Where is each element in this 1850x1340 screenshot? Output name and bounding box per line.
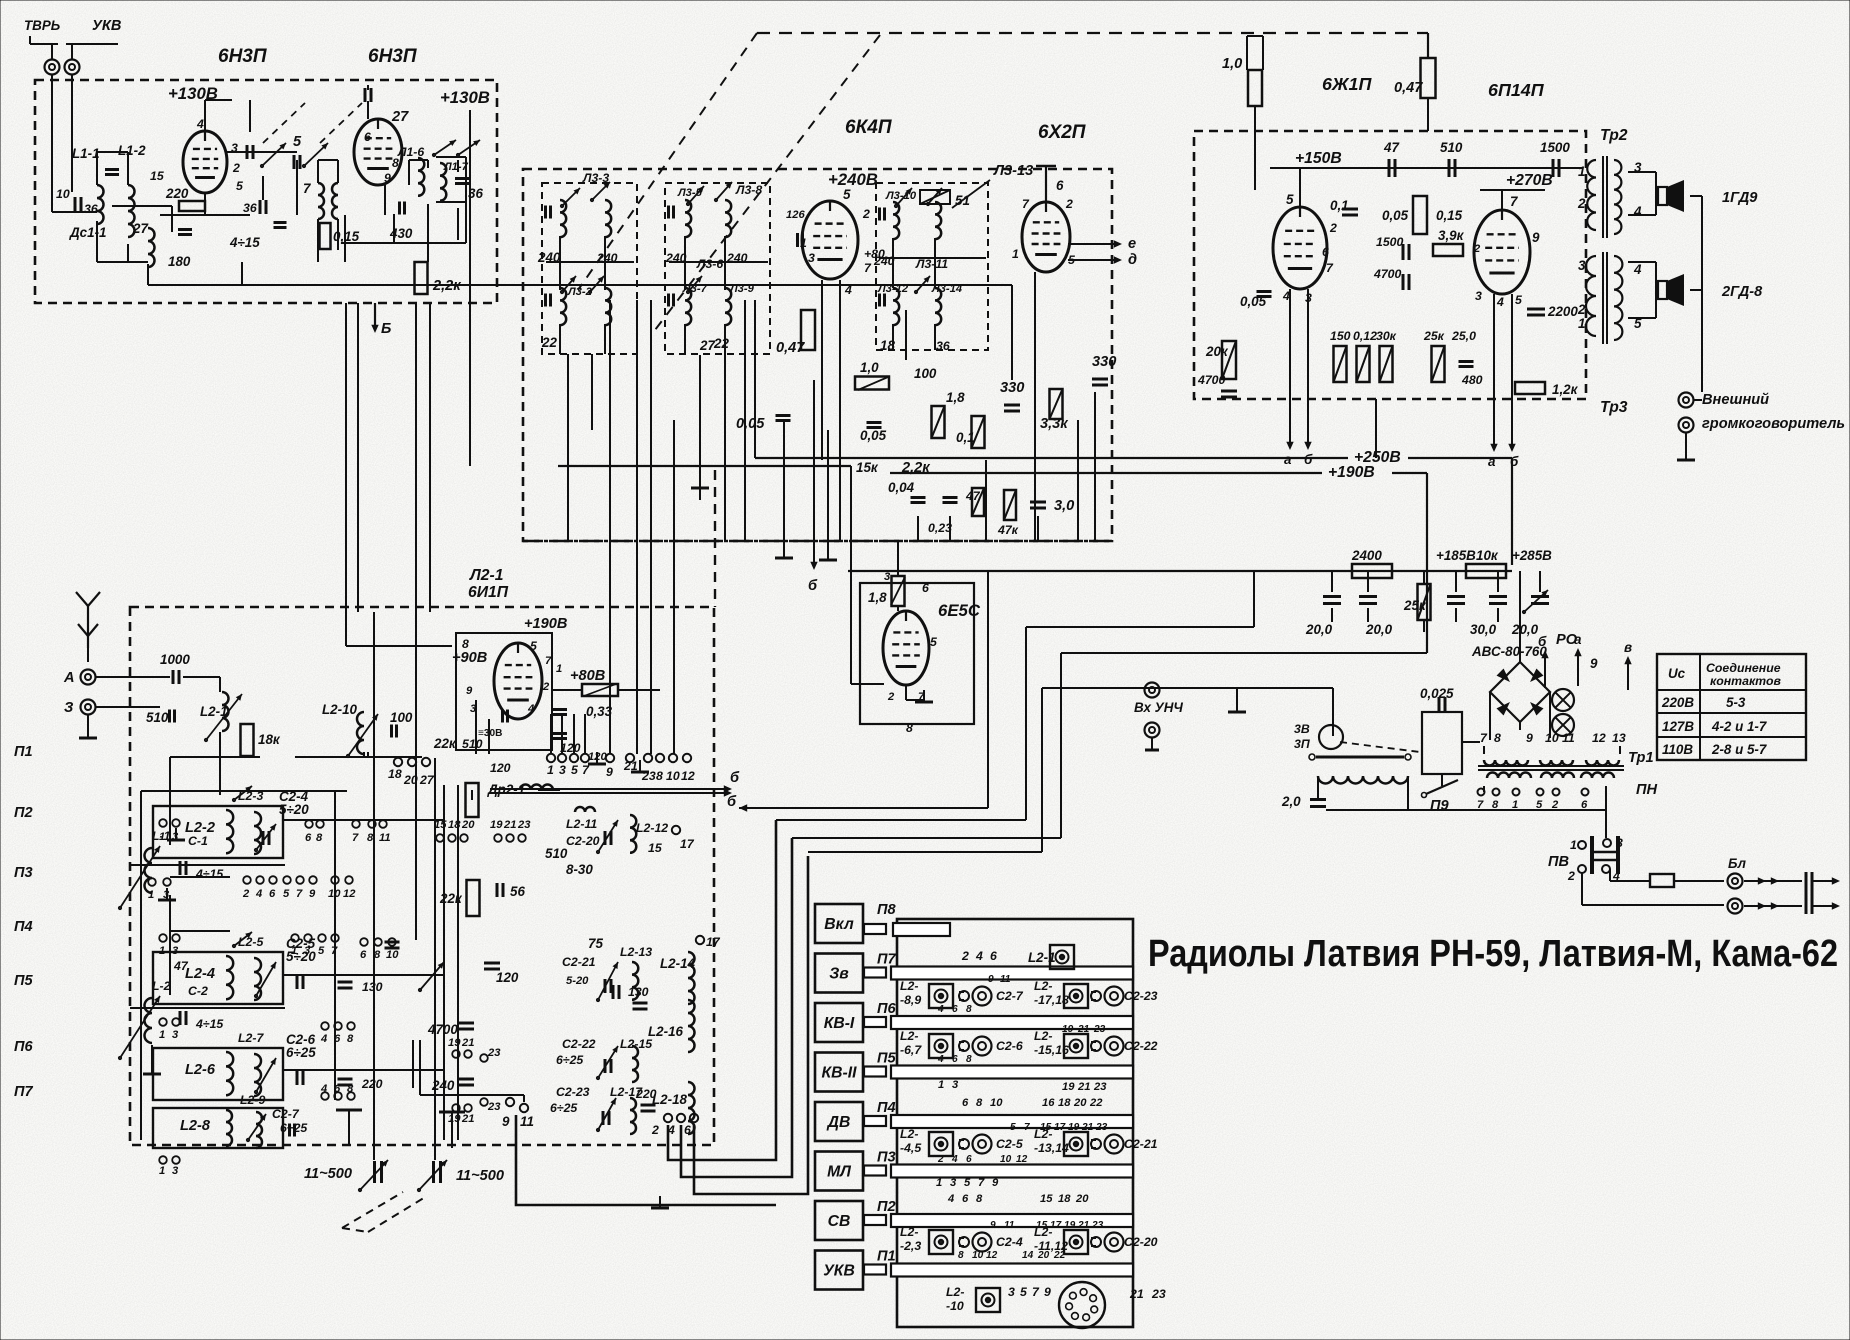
svg-text:21: 21 bbox=[1077, 1081, 1090, 1093]
svg-text:220В: 220В bbox=[1661, 695, 1694, 710]
svg-text:3: 3 bbox=[950, 1177, 957, 1189]
svg-text:8: 8 bbox=[347, 1033, 354, 1045]
svg-text:19: 19 bbox=[1064, 1220, 1076, 1231]
svg-text:П9: П9 bbox=[1430, 798, 1449, 814]
svg-text:8: 8 bbox=[976, 1097, 983, 1109]
svg-text:0,05: 0,05 bbox=[736, 416, 765, 432]
svg-text:L2-5: L2-5 bbox=[238, 935, 263, 949]
svg-text:L2-4: L2-4 bbox=[185, 966, 215, 982]
svg-text:1: 1 bbox=[1012, 247, 1019, 261]
svg-text:С2-7: С2-7 bbox=[996, 989, 1024, 1003]
svg-text:430: 430 bbox=[389, 226, 413, 241]
svg-text:С-2: С-2 bbox=[188, 984, 208, 998]
svg-text:4: 4 bbox=[667, 1123, 675, 1137]
svg-text:6÷25: 6÷25 bbox=[556, 1053, 583, 1067]
svg-text:4: 4 bbox=[844, 283, 852, 297]
svg-text:L2-: L2- bbox=[900, 1029, 918, 1043]
svg-text:15к: 15к bbox=[856, 460, 879, 475]
svg-text:6Н3П: 6Н3П bbox=[368, 46, 417, 67]
svg-text:З: З bbox=[64, 700, 74, 716]
svg-text:0,04: 0,04 bbox=[888, 480, 915, 495]
svg-text:15: 15 bbox=[1036, 1220, 1048, 1231]
svg-text:2: 2 bbox=[542, 681, 550, 693]
svg-text:23: 23 bbox=[1093, 1024, 1106, 1035]
svg-text:Вкл: Вкл bbox=[824, 916, 854, 933]
svg-text:3,3к: 3,3к bbox=[1040, 416, 1068, 432]
svg-text:е: е bbox=[1128, 236, 1136, 252]
svg-text:1: 1 bbox=[1578, 316, 1585, 331]
svg-text:2: 2 bbox=[1577, 196, 1586, 211]
svg-text:С2-23: С2-23 bbox=[556, 1085, 590, 1099]
svg-text:Внешний: Внешний bbox=[1702, 392, 1769, 408]
svg-text:17: 17 bbox=[680, 837, 695, 851]
svg-text:20: 20 bbox=[461, 819, 475, 831]
svg-text:7: 7 bbox=[352, 832, 359, 844]
svg-text:4: 4 bbox=[320, 1083, 328, 1095]
svg-text:9: 9 bbox=[1590, 656, 1598, 671]
svg-text:7: 7 bbox=[331, 945, 338, 957]
svg-text:+190В: +190В bbox=[1328, 464, 1375, 481]
svg-text:б: б bbox=[730, 770, 740, 786]
svg-text:6: 6 bbox=[334, 1083, 341, 1095]
svg-text:С2-21: С2-21 bbox=[1124, 1137, 1158, 1151]
svg-text:П3: П3 bbox=[877, 1150, 896, 1166]
svg-text:23: 23 bbox=[641, 769, 656, 783]
svg-text:L2-: L2- bbox=[1034, 979, 1052, 993]
svg-text:13: 13 bbox=[1612, 731, 1626, 745]
svg-text:6Х2П: 6Х2П bbox=[1038, 122, 1086, 143]
svg-text:2200: 2200 bbox=[1547, 304, 1578, 319]
svg-text:4÷15: 4÷15 bbox=[195, 867, 223, 881]
svg-text:А: А bbox=[63, 670, 75, 686]
svg-text:6И1П: 6И1П bbox=[468, 584, 509, 601]
svg-text:4: 4 bbox=[1633, 262, 1642, 277]
svg-text:3: 3 bbox=[808, 251, 815, 265]
svg-text:5: 5 bbox=[1515, 293, 1522, 307]
svg-text:Дс1-1: Дс1-1 bbox=[69, 225, 106, 240]
svg-text:25,0: 25,0 bbox=[1451, 329, 1476, 343]
svg-text:23: 23 bbox=[517, 819, 531, 831]
svg-text:1: 1 bbox=[1570, 838, 1577, 852]
svg-text:+80В: +80В bbox=[570, 668, 605, 684]
svg-text:21: 21 bbox=[1077, 1024, 1090, 1035]
svg-text:С-1: С-1 bbox=[188, 834, 208, 848]
svg-text:L2-11: L2-11 bbox=[566, 817, 597, 831]
svg-text:-8,9: -8,9 bbox=[900, 993, 921, 1007]
svg-text:д: д bbox=[1128, 252, 1137, 268]
svg-text:Тр1: Тр1 bbox=[1628, 750, 1654, 766]
svg-text:5-3: 5-3 bbox=[1726, 695, 1746, 710]
svg-text:6: 6 bbox=[305, 832, 312, 844]
svg-text:2: 2 bbox=[1473, 243, 1481, 255]
svg-text:Вх УНЧ: Вх УНЧ bbox=[1134, 700, 1183, 715]
svg-text:КВ-II: КВ-II bbox=[822, 1065, 858, 1082]
svg-text:0,1: 0,1 bbox=[1330, 198, 1349, 213]
svg-text:УКВ: УКВ bbox=[92, 18, 121, 34]
svg-text:8: 8 bbox=[347, 1083, 354, 1095]
svg-text:Радиолы Латвия РН-59, Латвия-М: Радиолы Латвия РН-59, Латвия-М, Кама-62 bbox=[1148, 933, 1838, 975]
svg-text:L1-2: L1-2 bbox=[118, 143, 146, 158]
svg-text:11~500: 11~500 bbox=[304, 1166, 352, 1182]
svg-text:0,23: 0,23 bbox=[928, 521, 952, 535]
svg-text:б: б bbox=[808, 578, 818, 594]
svg-text:19: 19 bbox=[490, 819, 503, 831]
svg-text:громкоговоритель: громкоговоритель bbox=[1702, 416, 1845, 432]
svg-text:L-2: L-2 bbox=[152, 979, 171, 993]
svg-text:С2-20: С2-20 bbox=[1124, 1235, 1158, 1249]
svg-text:2: 2 bbox=[242, 888, 250, 900]
svg-text:25к: 25к bbox=[1423, 329, 1445, 343]
svg-text:240: 240 bbox=[873, 254, 895, 268]
svg-text:6: 6 bbox=[269, 888, 276, 900]
svg-text:18: 18 bbox=[448, 819, 461, 831]
svg-text:10: 10 bbox=[56, 187, 70, 201]
svg-text:11: 11 bbox=[1004, 1220, 1015, 1231]
svg-text:Л3-11: Л3-11 bbox=[915, 257, 948, 271]
svg-text:1: 1 bbox=[1578, 164, 1585, 179]
svg-text:КВ-I: КВ-I bbox=[824, 1015, 855, 1032]
svg-text:П1: П1 bbox=[877, 1249, 896, 1265]
svg-text:47к: 47к bbox=[997, 523, 1019, 537]
svg-text:8: 8 bbox=[656, 769, 663, 783]
svg-text:-4,5: -4,5 bbox=[900, 1141, 921, 1155]
svg-text:11: 11 bbox=[1562, 731, 1575, 745]
svg-text:19: 19 bbox=[1068, 1122, 1080, 1133]
svg-text:0,33: 0,33 bbox=[586, 704, 613, 719]
svg-text:510: 510 bbox=[146, 710, 169, 725]
svg-text:18к: 18к bbox=[258, 732, 281, 747]
svg-text:б: б bbox=[1538, 634, 1547, 649]
svg-text:21: 21 bbox=[1081, 1122, 1094, 1133]
svg-text:6: 6 bbox=[1322, 245, 1329, 259]
svg-text:4: 4 bbox=[320, 1033, 328, 1045]
svg-text:180: 180 bbox=[168, 254, 191, 269]
svg-text:6Н3П: 6Н3П bbox=[218, 46, 267, 67]
svg-text:2: 2 bbox=[1567, 869, 1575, 883]
svg-text:120: 120 bbox=[588, 751, 607, 763]
svg-text:27: 27 bbox=[699, 338, 715, 353]
svg-text:1: 1 bbox=[159, 1165, 165, 1177]
svg-text:1,0: 1,0 bbox=[1222, 56, 1242, 72]
svg-text:21: 21 bbox=[623, 759, 638, 773]
svg-text:51: 51 bbox=[955, 193, 970, 208]
svg-text:6: 6 bbox=[962, 1097, 969, 1109]
svg-text:5: 5 bbox=[1010, 1122, 1016, 1133]
svg-text:6: 6 bbox=[334, 1033, 341, 1045]
svg-text:4÷15: 4÷15 bbox=[229, 235, 260, 250]
svg-text:23: 23 bbox=[1091, 1220, 1104, 1231]
svg-text:П4: П4 bbox=[14, 919, 33, 935]
svg-text:21: 21 bbox=[503, 819, 516, 831]
svg-text:110В: 110В bbox=[1662, 742, 1693, 757]
svg-text:22: 22 bbox=[1053, 1250, 1066, 1261]
svg-text:14: 14 bbox=[1022, 1250, 1034, 1261]
svg-text:8: 8 bbox=[966, 1054, 972, 1065]
svg-text:8: 8 bbox=[374, 949, 381, 961]
svg-text:10к: 10к bbox=[1476, 548, 1499, 563]
svg-text:1000: 1000 bbox=[160, 652, 190, 667]
svg-text:б: б bbox=[727, 794, 737, 810]
svg-text:8: 8 bbox=[976, 1193, 983, 1205]
svg-text:L2-: L2- bbox=[900, 1225, 918, 1239]
svg-text:П7: П7 bbox=[14, 1084, 33, 1100]
svg-text:L2-17: L2-17 bbox=[610, 1085, 643, 1099]
svg-text:10: 10 bbox=[328, 888, 341, 900]
svg-text:АВС-80-760: АВС-80-760 bbox=[1471, 644, 1547, 659]
svg-text:8: 8 bbox=[966, 1004, 972, 1015]
svg-text:ДВ: ДВ bbox=[826, 1114, 851, 1131]
svg-text:510: 510 bbox=[1440, 140, 1463, 155]
svg-text:8: 8 bbox=[906, 721, 913, 735]
svg-text:4-2 и 1-7: 4-2 и 1-7 bbox=[1711, 719, 1767, 734]
svg-text:МЛ: МЛ bbox=[827, 1164, 852, 1181]
svg-text:3: 3 bbox=[1475, 289, 1482, 303]
svg-text:3В: 3В bbox=[1294, 722, 1310, 736]
svg-text:47: 47 bbox=[965, 489, 981, 503]
svg-text:L2-9: L2-9 bbox=[240, 1093, 265, 1107]
svg-text:7: 7 bbox=[1510, 194, 1518, 209]
svg-text:3: 3 bbox=[1008, 1285, 1015, 1299]
svg-text:а: а bbox=[1284, 452, 1292, 467]
svg-text:4: 4 bbox=[937, 1054, 944, 1065]
svg-text:П6: П6 bbox=[877, 1001, 896, 1017]
svg-text:5÷20: 5÷20 bbox=[286, 949, 316, 964]
svg-text:5: 5 bbox=[318, 945, 325, 957]
svg-text:1,2к: 1,2к bbox=[1552, 382, 1579, 397]
svg-text:12: 12 bbox=[986, 1250, 998, 1261]
svg-text:С2-23: С2-23 bbox=[1124, 989, 1158, 1003]
svg-text:ПН: ПН bbox=[1636, 782, 1657, 798]
svg-text:УКВ: УКВ bbox=[823, 1263, 855, 1280]
svg-text:Соединение: Соединение bbox=[1706, 661, 1781, 675]
svg-text:19: 19 bbox=[448, 1113, 461, 1125]
svg-text:20: 20 bbox=[1037, 1250, 1050, 1261]
svg-text:12: 12 bbox=[1016, 1154, 1028, 1165]
svg-text:Л1-6: Л1-6 bbox=[397, 145, 424, 159]
svg-text:19: 19 bbox=[1062, 1081, 1075, 1093]
svg-text:+270В: +270В bbox=[1506, 172, 1553, 189]
svg-text:Uс: Uс bbox=[1668, 666, 1686, 681]
svg-text:17: 17 bbox=[1054, 1122, 1067, 1133]
svg-text:36: 36 bbox=[243, 201, 257, 215]
svg-text:2-8 и 5-7: 2-8 и 5-7 bbox=[1711, 742, 1767, 757]
svg-text:0,05: 0,05 bbox=[1240, 294, 1267, 309]
svg-text:130: 130 bbox=[628, 985, 649, 999]
svg-text:6: 6 bbox=[966, 1154, 972, 1165]
svg-text:Зв: Зв bbox=[829, 966, 849, 983]
svg-text:1,8: 1,8 bbox=[868, 590, 887, 605]
svg-text:6: 6 bbox=[364, 130, 371, 144]
svg-text:18: 18 bbox=[1058, 1097, 1071, 1109]
svg-text:Л1-7: Л1-7 bbox=[443, 161, 469, 173]
svg-text:0,15: 0,15 bbox=[333, 229, 360, 244]
svg-text:+130В: +130В bbox=[440, 88, 490, 107]
svg-text:L2-: L2- bbox=[900, 979, 918, 993]
svg-text:6: 6 bbox=[952, 1054, 958, 1065]
svg-text:22: 22 bbox=[1089, 1097, 1103, 1109]
svg-text:Л3-2: Л3-2 bbox=[567, 286, 593, 298]
svg-text:8: 8 bbox=[958, 1250, 964, 1261]
svg-text:6П14П: 6П14П bbox=[1488, 80, 1545, 100]
svg-text:2,0: 2,0 bbox=[1281, 794, 1301, 809]
svg-text:2: 2 bbox=[1577, 302, 1586, 317]
svg-text:126: 126 bbox=[786, 209, 805, 221]
svg-text:Тр2: Тр2 bbox=[1600, 127, 1628, 144]
svg-text:+190В: +190В bbox=[524, 616, 567, 632]
svg-text:120: 120 bbox=[560, 741, 581, 755]
svg-text:+240В: +240В bbox=[828, 170, 878, 189]
svg-text:Л3-8: Л3-8 bbox=[735, 183, 762, 197]
svg-text:1,8: 1,8 bbox=[946, 390, 965, 405]
svg-text:а: а bbox=[1488, 454, 1496, 469]
svg-text:27: 27 bbox=[132, 221, 148, 236]
svg-text:3,0: 3,0 bbox=[1054, 498, 1074, 514]
svg-text:4700: 4700 bbox=[1373, 267, 1402, 281]
svg-text:2: 2 bbox=[862, 207, 870, 221]
svg-text:-10: -10 bbox=[946, 1299, 964, 1313]
svg-text:6: 6 bbox=[360, 949, 367, 961]
svg-text:4: 4 bbox=[951, 1154, 958, 1165]
svg-text:+185В: +185В bbox=[1436, 548, 1476, 563]
svg-text:1: 1 bbox=[159, 1029, 165, 1041]
svg-text:7: 7 bbox=[545, 655, 552, 667]
svg-text:9: 9 bbox=[992, 1177, 999, 1189]
svg-text:+285В: +285В bbox=[1512, 548, 1552, 563]
svg-text:7: 7 bbox=[303, 181, 311, 196]
svg-text:20: 20 bbox=[1075, 1193, 1089, 1205]
svg-text:L2-6: L2-6 bbox=[185, 1062, 216, 1078]
svg-text:1: 1 bbox=[1512, 799, 1518, 811]
svg-text:23: 23 bbox=[487, 1047, 501, 1059]
svg-text:480: 480 bbox=[1461, 373, 1483, 387]
svg-text:3: 3 bbox=[884, 571, 891, 583]
svg-text:5: 5 bbox=[1286, 192, 1294, 207]
svg-text:7: 7 bbox=[1326, 261, 1334, 275]
svg-text:7: 7 bbox=[1477, 799, 1484, 811]
svg-text:П8: П8 bbox=[877, 902, 896, 918]
svg-text:П6: П6 bbox=[14, 1039, 33, 1055]
svg-text:20: 20 bbox=[1073, 1097, 1087, 1109]
svg-text:2ГД-8: 2ГД-8 bbox=[1721, 284, 1763, 300]
svg-text:0,05: 0,05 bbox=[860, 428, 887, 443]
svg-text:П3: П3 bbox=[14, 865, 33, 881]
svg-text:23: 23 bbox=[1095, 1122, 1108, 1133]
svg-text:9: 9 bbox=[606, 765, 613, 779]
svg-text:9: 9 bbox=[1044, 1285, 1051, 1299]
svg-text:220: 220 bbox=[165, 186, 189, 201]
svg-text:6К4П: 6К4П bbox=[845, 117, 892, 138]
svg-text:6: 6 bbox=[1581, 799, 1588, 811]
svg-text:Л3-3: Л3-3 bbox=[582, 171, 609, 185]
svg-text:-2,3: -2,3 bbox=[900, 1239, 921, 1253]
svg-text:С2-22: С2-22 bbox=[1124, 1039, 1158, 1053]
svg-text:2400: 2400 bbox=[1351, 548, 1382, 563]
svg-text:6÷25: 6÷25 bbox=[286, 1045, 316, 1060]
svg-text:7: 7 bbox=[1022, 197, 1030, 211]
svg-text:11~500: 11~500 bbox=[456, 1168, 504, 1184]
svg-text:ПВ: ПВ bbox=[1548, 854, 1569, 870]
svg-text:47: 47 bbox=[1383, 140, 1399, 155]
svg-text:8: 8 bbox=[367, 832, 374, 844]
svg-text:10: 10 bbox=[1000, 1154, 1012, 1165]
svg-text:L2-: L2- bbox=[900, 1127, 918, 1141]
svg-text:20,0: 20,0 bbox=[1511, 622, 1539, 637]
svg-text:С2-22: С2-22 bbox=[562, 1037, 596, 1051]
svg-text:1500: 1500 bbox=[1376, 235, 1404, 249]
svg-text:6: 6 bbox=[952, 1004, 958, 1015]
svg-text:0,15: 0,15 bbox=[1436, 208, 1463, 223]
svg-text:3: 3 bbox=[172, 1165, 179, 1177]
svg-text:1ГД9: 1ГД9 bbox=[1722, 190, 1758, 206]
svg-text:9: 9 bbox=[1526, 731, 1533, 745]
svg-text:36: 36 bbox=[936, 339, 950, 353]
svg-text:330: 330 bbox=[1092, 354, 1116, 370]
svg-text:5-20: 5-20 bbox=[566, 975, 589, 987]
svg-text:4: 4 bbox=[975, 949, 983, 963]
svg-text:в: в bbox=[1624, 640, 1632, 655]
svg-text:Тр3: Тр3 bbox=[1600, 399, 1628, 416]
svg-text:510: 510 bbox=[462, 737, 483, 751]
svg-text:10: 10 bbox=[972, 1250, 984, 1261]
svg-text:2: 2 bbox=[961, 949, 969, 963]
svg-text:3: 3 bbox=[559, 763, 566, 777]
svg-text:4: 4 bbox=[1633, 204, 1642, 219]
svg-text:П5: П5 bbox=[877, 1051, 896, 1067]
svg-text:15: 15 bbox=[648, 841, 662, 855]
svg-text:L2-12: L2-12 bbox=[636, 821, 668, 835]
svg-text:100: 100 bbox=[914, 366, 937, 381]
svg-text:7: 7 bbox=[864, 261, 872, 275]
svg-text:120: 120 bbox=[496, 970, 519, 985]
svg-text:1,0: 1,0 bbox=[860, 360, 879, 375]
svg-text:1: 1 bbox=[556, 663, 562, 675]
svg-text:5: 5 bbox=[236, 179, 243, 193]
svg-text:6Ж1П: 6Ж1П bbox=[1322, 74, 1372, 94]
svg-text:9: 9 bbox=[466, 685, 473, 697]
svg-text:6Е5С: 6Е5С bbox=[938, 601, 981, 620]
svg-text:11: 11 bbox=[1000, 974, 1011, 985]
svg-text:+150В: +150В bbox=[1295, 150, 1342, 167]
svg-text:21: 21 bbox=[461, 1113, 474, 1125]
svg-text:П7: П7 bbox=[877, 952, 896, 968]
svg-text:С2-6: С2-6 bbox=[996, 1039, 1023, 1053]
svg-text:5: 5 bbox=[571, 763, 578, 777]
svg-text:0,025: 0,025 bbox=[1420, 686, 1454, 701]
svg-text:L2-18: L2-18 bbox=[652, 1092, 688, 1107]
svg-text:3,9к: 3,9к bbox=[1438, 228, 1465, 243]
svg-text:23: 23 bbox=[1093, 1081, 1107, 1093]
svg-text:4: 4 bbox=[196, 117, 204, 131]
svg-text:ТВРЬ: ТВРЬ bbox=[24, 18, 60, 33]
svg-text:8: 8 bbox=[1492, 799, 1499, 811]
svg-text:9: 9 bbox=[990, 1220, 996, 1231]
svg-text:1: 1 bbox=[936, 1177, 942, 1189]
svg-text:127В: 127В bbox=[1662, 719, 1694, 734]
svg-text:4: 4 bbox=[1282, 289, 1290, 303]
svg-text:1: 1 bbox=[148, 889, 154, 901]
svg-text:СВ: СВ bbox=[828, 1213, 851, 1230]
svg-text:10: 10 bbox=[1545, 731, 1559, 745]
svg-text:21: 21 bbox=[1077, 1220, 1090, 1231]
svg-text:17: 17 bbox=[706, 935, 721, 949]
svg-text:150: 150 bbox=[1330, 329, 1351, 343]
svg-text:5: 5 bbox=[843, 187, 851, 202]
svg-text:8: 8 bbox=[462, 637, 469, 651]
svg-text:18: 18 bbox=[388, 767, 402, 781]
svg-text:5: 5 bbox=[530, 639, 537, 653]
svg-text:20,0: 20,0 bbox=[1365, 622, 1393, 637]
svg-text:120: 120 bbox=[490, 761, 511, 775]
